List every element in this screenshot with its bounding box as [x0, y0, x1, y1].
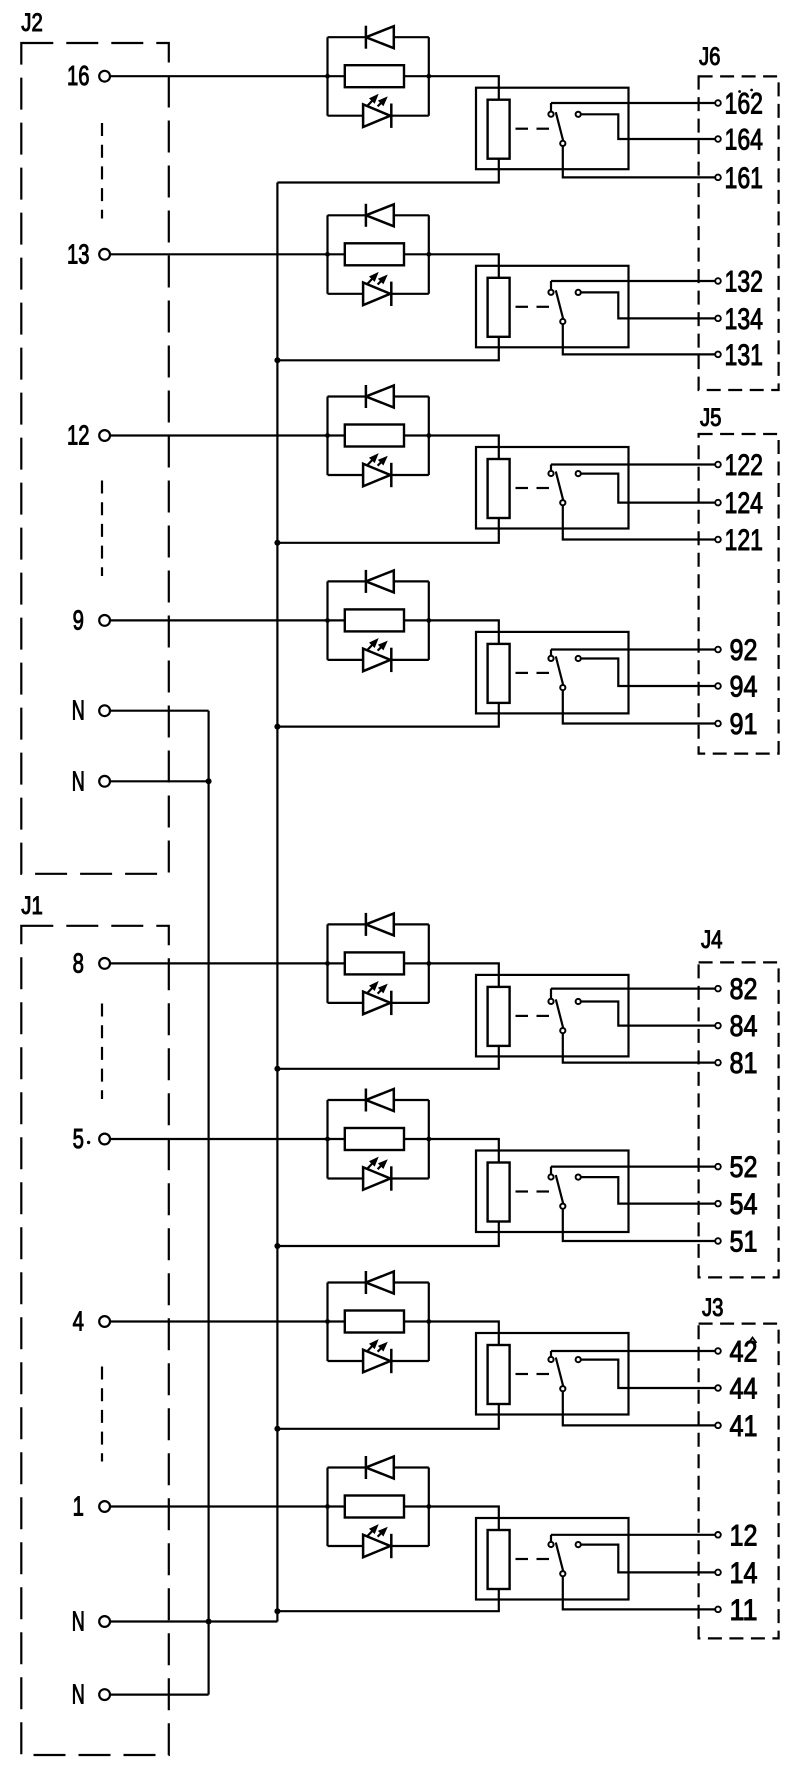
node right rail (ch1) — [426, 74, 431, 79]
parallel block left rail (ch3) — [326, 397, 328, 476]
terminal pin 8 — [99, 958, 110, 969]
wire J2 N upper to N bus — [110, 710, 209, 712]
svg-text:N: N — [72, 1679, 85, 1710]
svg-text:12: 12 — [730, 1519, 758, 1552]
relay K5 NO contact — [576, 999, 581, 1004]
svg-text:122: 122 — [725, 449, 764, 482]
relay K2 switch arm contact — [560, 319, 565, 324]
svg-text:4: 4 — [73, 1306, 84, 1337]
junction return bus ch7 — [274, 1426, 280, 1432]
junction return bus ch8 — [274, 1608, 280, 1614]
parallel block right rail (ch5) — [428, 924, 430, 1003]
svg-text:13: 13 — [67, 238, 90, 269]
flyback diode D1 — [328, 36, 366, 38]
relay K1 switch pivot contact — [548, 112, 553, 117]
LED2 emission arrows — [368, 277, 374, 284]
svg-text:12: 12 — [67, 420, 90, 451]
terminal pin 16 — [99, 71, 110, 82]
relay K2 NO contact — [576, 290, 581, 295]
LED4 emission arrows — [368, 643, 374, 650]
LED6 indicator — [328, 1177, 364, 1179]
relay K1 NO contact — [576, 112, 581, 117]
svg-text:J5: J5 — [700, 405, 722, 432]
LED3 emission arrows — [368, 458, 374, 465]
relay K8 actuation dashes — [516, 1558, 529, 1560]
svg-text:J2: J2 — [21, 10, 43, 37]
parallel block right rail (ch1) — [428, 37, 430, 116]
wire input 12 to parallel block — [110, 434, 328, 436]
svg-text:161: 161 — [725, 162, 764, 195]
svg-text:92: 92 — [730, 634, 758, 667]
LED2 indicator — [328, 293, 364, 295]
relay K6 switch pivot contact — [548, 1174, 553, 1179]
relay K1 actuation dashes — [516, 128, 529, 130]
wire K5 NC/arm to terminal 81 — [563, 1033, 715, 1062]
junction N bus / J2 N lower — [206, 778, 212, 784]
wire J1 N lower to N bus — [110, 1693, 209, 1695]
svg-text:11: 11 — [730, 1594, 758, 1627]
relay K4 switch arm — [556, 656, 563, 685]
flyback diode D3 — [328, 395, 366, 397]
resistor R7 (coil series) — [345, 1311, 404, 1333]
wire K6 common to terminal 52 — [551, 1165, 715, 1167]
wire to relay K8 coil — [429, 1507, 499, 1531]
node right rail (ch7) — [426, 1319, 431, 1324]
svg-text:42: 42 — [730, 1336, 758, 1369]
relay K3 switch pivot contact — [548, 471, 553, 476]
connector J3 dashed box — [699, 1324, 779, 1639]
relay K6 switch common stem — [550, 1167, 552, 1175]
parallel block right rail (ch2) — [428, 215, 430, 293]
svg-text:82: 82 — [730, 973, 758, 1006]
relay K8 outline box — [476, 1518, 629, 1600]
LED8 indicator — [328, 1545, 364, 1547]
wire K5 common to terminal 82 — [551, 987, 715, 989]
relay K6 switch arm contact — [560, 1204, 565, 1209]
relay K1 switch arm — [556, 112, 563, 141]
terminal pin 5 — [99, 1134, 110, 1145]
parallel block right rail (ch7) — [428, 1283, 430, 1362]
relay K2 switch pivot contact — [548, 290, 553, 295]
LED7 indicator — [328, 1360, 364, 1362]
wire J1 N upper to return bus — [110, 1620, 277, 1622]
junction return bus ch2 — [274, 357, 280, 363]
wire input 4 to parallel block — [110, 1320, 328, 1322]
junction return bus ch5 — [274, 1066, 280, 1072]
wire K3 common to terminal 122 — [551, 463, 715, 465]
svg-text:14: 14 — [730, 1557, 758, 1590]
svg-text:41: 41 — [730, 1410, 758, 1443]
relay K4 switch pivot contact — [548, 656, 553, 661]
wire through resistor R4 — [328, 619, 345, 621]
wire K7 NO to terminal 44 — [581, 1360, 715, 1388]
relay K8 NO contact — [576, 1542, 581, 1547]
relay K1 switch arm contact — [560, 141, 565, 146]
LED8 emission arrows — [368, 1529, 374, 1536]
relay K5 coil — [488, 987, 510, 1046]
node input/left rail (ch8) — [325, 1504, 330, 1509]
relay K5 switch arm contact — [560, 1028, 565, 1033]
flyback diode D4 — [328, 580, 366, 582]
wire K7 common to terminal 42 — [551, 1350, 715, 1352]
flyback diode D6 — [328, 1099, 366, 1101]
wire to relay K1 coil — [429, 76, 499, 100]
LED4 indicator — [328, 659, 364, 661]
parallel block right rail (ch3) — [428, 397, 430, 476]
terminal J1 pin N (upper) — [99, 1616, 110, 1627]
node input/left rail (ch5) — [325, 961, 330, 966]
resistor R4 (coil series) — [345, 609, 404, 631]
relay K4 coil — [488, 644, 510, 703]
wire K3 coil return — [277, 518, 498, 543]
relay K3 outline box — [476, 447, 629, 529]
relay K5 actuation dashes — [516, 1015, 529, 1017]
return bus vertical — [276, 183, 278, 1622]
pin-group separator (dashed) — [101, 1004, 103, 1100]
relay K5 switch arm — [556, 999, 563, 1028]
connector J6 dashed box — [699, 76, 779, 390]
node right rail (ch5) — [426, 961, 431, 966]
relay K3 NO contact — [576, 471, 581, 476]
wire K2 NC/arm to terminal 131 — [563, 324, 715, 354]
svg-text:162: 162 — [725, 88, 764, 121]
wire K5 NO to terminal 84 — [581, 1002, 715, 1026]
relay K6 switch arm — [556, 1175, 563, 1204]
svg-text:94: 94 — [730, 671, 758, 704]
svg-text:N: N — [72, 765, 85, 796]
node input/left rail (ch1) — [325, 74, 330, 79]
svg-text:N: N — [72, 1606, 85, 1637]
relay K7 switch common stem — [550, 1351, 552, 1357]
terminal pin 51 — [715, 1238, 721, 1244]
terminal pin 12 — [99, 430, 110, 441]
svg-text:16: 16 — [67, 60, 90, 91]
svg-text:52: 52 — [730, 1151, 758, 1184]
resistor R5 (coil series) — [345, 952, 404, 974]
node right rail (ch4) — [426, 618, 431, 623]
wire K7 NC/arm to terminal 41 — [563, 1391, 715, 1425]
svg-text:44: 44 — [730, 1373, 758, 1406]
terminal pin 121 — [715, 537, 721, 543]
wire K1 coil return — [277, 159, 498, 183]
svg-text:91: 91 — [730, 708, 758, 741]
relay K7 coil — [488, 1345, 510, 1404]
wire K5 coil return — [277, 1046, 498, 1069]
LED6 emission arrows — [368, 1162, 374, 1169]
terminal pin 124 — [715, 500, 721, 506]
resistor R3 (coil series) — [345, 425, 404, 447]
stray period after 5 — [87, 1141, 90, 1144]
pin-group separator (dashed) — [101, 481, 103, 577]
wire input 9 to parallel block — [110, 619, 328, 621]
wire input 5 to parallel block — [110, 1138, 328, 1140]
node right rail (ch2) — [426, 252, 431, 257]
relay K7 actuation dashes — [516, 1373, 529, 1375]
wire K8 coil return — [277, 1589, 498, 1611]
relay K4 outline box — [476, 632, 629, 714]
relay K8 switch pivot contact — [548, 1542, 553, 1547]
relay K3 switch arm — [556, 472, 563, 501]
junction N bus / J1 N upper wire — [206, 1619, 212, 1625]
N bus vertical — [208, 711, 210, 1695]
relay K7 switch arm contact — [560, 1386, 565, 1391]
resistor R8 (coil series) — [345, 1496, 404, 1518]
svg-text:121: 121 — [725, 524, 764, 557]
LED7 emission arrows — [368, 1344, 374, 1351]
LED5 emission arrows — [368, 986, 374, 993]
relay K7 switch pivot contact — [548, 1357, 553, 1362]
flyback diode D2 — [328, 214, 366, 216]
wire K4 NC/arm to terminal 91 — [563, 690, 715, 723]
terminal pin 9 — [99, 615, 110, 626]
svg-text:N: N — [72, 695, 85, 726]
svg-text:132: 132 — [725, 266, 764, 299]
parallel block left rail (ch4) — [326, 581, 328, 660]
junction return bus ch3 — [274, 540, 280, 546]
relay K5 switch pivot contact — [548, 999, 553, 1004]
terminal pin 41 — [715, 1423, 721, 1429]
relay K6 outline box — [476, 1151, 629, 1233]
flyback diode D7 — [328, 1281, 366, 1283]
terminal J1 pin N (lower) — [99, 1689, 110, 1700]
svg-text:5: 5 — [73, 1123, 84, 1154]
connector J1 dashed box — [21, 926, 169, 1755]
wire K2 common to terminal 132 — [551, 280, 715, 282]
svg-text:84: 84 — [730, 1010, 758, 1043]
connector J4 dashed box — [699, 962, 779, 1277]
wire input 1 to parallel block — [110, 1505, 328, 1507]
wire input 13 to parallel block — [110, 253, 328, 255]
terminal pin 54 — [715, 1201, 721, 1207]
relay K8 switch arm contact — [560, 1571, 565, 1576]
relay K3 actuation dashes — [516, 487, 529, 489]
wire K7 coil return — [277, 1404, 498, 1429]
svg-text:J1: J1 — [21, 893, 43, 920]
wire K6 NC/arm to terminal 51 — [563, 1209, 715, 1241]
flyback diode D5 — [328, 923, 366, 925]
terminal pin 4 — [99, 1316, 110, 1327]
connector J2 dashed box — [21, 43, 169, 874]
relay K4 NO contact — [576, 656, 581, 661]
terminal pin 132 — [715, 278, 721, 284]
terminal pin 1 — [99, 1501, 110, 1512]
wire K6 NO to terminal 54 — [581, 1177, 715, 1204]
parallel block right rail (ch4) — [428, 581, 430, 660]
terminal pin 162 — [715, 100, 721, 106]
relay K2 coil — [488, 278, 510, 337]
wire input 16 to parallel block — [110, 75, 328, 77]
wire to relay K5 coil — [429, 963, 499, 987]
terminal pin 12 — [715, 1532, 721, 1538]
relay K1 coil — [488, 100, 510, 159]
relay K7 switch arm — [556, 1358, 563, 1387]
relay K4 actuation dashes — [516, 672, 529, 674]
wire K8 NC/arm to terminal 11 — [563, 1576, 715, 1609]
relay K4 switch arm contact — [560, 685, 565, 690]
parallel block right rail (ch6) — [428, 1100, 430, 1179]
LED1 indicator — [328, 115, 364, 117]
LED3 indicator — [328, 474, 364, 476]
terminal pin 92 — [715, 647, 721, 653]
wire J2 N lower to N bus — [110, 780, 209, 782]
svg-text:51: 51 — [730, 1226, 758, 1259]
wire through resistor R2 — [328, 253, 345, 255]
stray circumflex above 42 — [749, 1338, 757, 1344]
wire K4 coil return — [277, 703, 498, 727]
wire through resistor R5 — [328, 962, 345, 964]
wire K2 coil return — [277, 337, 498, 361]
relay K5 outline box — [476, 975, 629, 1057]
wire through resistor R6 — [328, 1138, 345, 1140]
svg-text:8: 8 — [73, 947, 84, 978]
wire through resistor R3 — [328, 434, 345, 436]
terminal pin 164 — [715, 136, 721, 142]
parallel block left rail (ch2) — [326, 215, 328, 293]
relay K8 switch common stem — [550, 1535, 552, 1542]
node right rail (ch8) — [426, 1504, 431, 1509]
wire K6 coil return — [277, 1222, 498, 1247]
junction return bus ch4 — [274, 724, 280, 730]
node right rail (ch3) — [426, 433, 431, 438]
connector J5 dashed box — [699, 434, 779, 754]
relay K4 switch common stem — [550, 650, 552, 656]
junction return bus ch6 — [274, 1243, 280, 1249]
pin-group separator (dashed) — [101, 123, 103, 219]
wire K3 NC/arm to terminal 121 — [563, 505, 715, 539]
node right rail (ch6) — [426, 1137, 431, 1142]
terminal pin 122 — [715, 462, 721, 468]
terminal pin 44 — [715, 1385, 721, 1391]
wire K8 NO to terminal 14 — [581, 1545, 715, 1573]
svg-text:134: 134 — [725, 303, 764, 336]
wire K3 NO to terminal 124 — [581, 474, 715, 503]
parallel block right rail (ch8) — [428, 1468, 430, 1547]
parallel block left rail (ch1) — [326, 37, 328, 116]
wire to relay K4 coil — [429, 620, 499, 644]
terminal pin 161 — [715, 175, 721, 181]
terminal pin 13 — [99, 249, 110, 260]
terminal pin 91 — [715, 721, 721, 727]
svg-text:54: 54 — [730, 1188, 758, 1221]
parallel block left rail (ch5) — [326, 924, 328, 1003]
svg-text:81: 81 — [730, 1047, 758, 1080]
terminal pin 82 — [715, 986, 721, 992]
resistor R2 (coil series) — [345, 243, 404, 265]
relay K6 NO contact — [576, 1175, 581, 1180]
terminal J2 pin N (upper) — [99, 705, 110, 716]
wire input 8 to parallel block — [110, 962, 328, 964]
LED1 emission arrows — [368, 99, 374, 106]
relay K2 actuation dashes — [516, 306, 529, 308]
relay K1 switch common stem — [550, 103, 552, 111]
relay K7 outline box — [476, 1333, 629, 1415]
svg-text:J6: J6 — [699, 44, 721, 71]
relay K8 switch arm — [556, 1543, 563, 1572]
terminal pin 134 — [715, 316, 721, 322]
stray speckles above 162 — [738, 90, 741, 93]
relay K3 switch common stem — [550, 465, 552, 471]
flyback diode D8 — [328, 1466, 366, 1468]
node input/left rail (ch3) — [325, 433, 330, 438]
wire to relay K3 coil — [429, 436, 499, 460]
wire through resistor R8 — [328, 1505, 345, 1507]
resistor R1 (coil series) — [345, 65, 404, 87]
node input/left rail (ch4) — [325, 618, 330, 623]
terminal J2 pin N (lower) — [99, 776, 110, 787]
LED5 indicator — [328, 1002, 364, 1004]
node input/left rail (ch2) — [325, 252, 330, 257]
wire K4 NO to terminal 94 — [581, 659, 715, 687]
terminal pin 42 — [715, 1348, 721, 1354]
svg-text:131: 131 — [725, 339, 764, 372]
svg-text:1: 1 — [73, 1491, 84, 1522]
svg-text:124: 124 — [725, 487, 764, 520]
terminal pin 52 — [715, 1164, 721, 1170]
relay K3 switch arm contact — [560, 500, 565, 505]
svg-text:164: 164 — [725, 124, 764, 157]
terminal pin 84 — [715, 1023, 721, 1029]
svg-text:J4: J4 — [701, 927, 723, 954]
relay K7 NO contact — [576, 1357, 581, 1362]
relay K2 switch common stem — [550, 281, 552, 290]
wire to relay K2 coil — [429, 254, 499, 277]
svg-text:9: 9 — [73, 604, 84, 635]
resistor R6 (coil series) — [345, 1128, 404, 1150]
relay K3 coil — [488, 459, 510, 518]
wire to relay K7 coil — [429, 1322, 499, 1346]
terminal pin 131 — [715, 352, 721, 358]
wire K2 NO to terminal 134 — [581, 292, 715, 318]
relay K6 actuation dashes — [516, 1190, 529, 1192]
wire K1 NC/arm to terminal 161 — [563, 146, 715, 177]
terminal pin 11 — [715, 1607, 721, 1613]
node input/left rail (ch7) — [325, 1319, 330, 1324]
relay K2 outline box — [476, 266, 629, 348]
wire K1 NO to terminal 164 — [581, 114, 715, 139]
svg-text:J3: J3 — [702, 1295, 724, 1322]
relay K6 coil — [488, 1163, 510, 1222]
pin-group separator (dashed) — [101, 1367, 103, 1462]
wire to relay K6 coil — [429, 1139, 499, 1163]
terminal pin 14 — [715, 1570, 721, 1576]
wire through resistor R1 — [328, 75, 345, 77]
relay K2 switch arm — [556, 290, 563, 319]
relay K5 switch common stem — [550, 989, 552, 999]
wire K1 common to terminal 162 — [551, 102, 715, 104]
node input/left rail (ch6) — [325, 1137, 330, 1142]
terminal pin 94 — [715, 683, 721, 689]
relay K1 outline box — [476, 88, 629, 170]
relay K8 coil — [488, 1530, 510, 1589]
parallel block left rail (ch6) — [326, 1100, 328, 1179]
wire through resistor R7 — [328, 1320, 345, 1322]
parallel block left rail (ch8) — [326, 1468, 328, 1547]
terminal pin 81 — [715, 1060, 721, 1066]
wire K8 common to terminal 12 — [551, 1534, 715, 1536]
parallel block left rail (ch7) — [326, 1283, 328, 1362]
wire K4 common to terminal 92 — [551, 648, 715, 650]
